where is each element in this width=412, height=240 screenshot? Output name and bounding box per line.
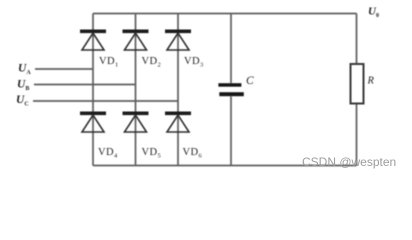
svg-text:VD1: VD1 (99, 56, 119, 69)
svg-text:UA: UA (18, 63, 31, 77)
wire: top DC bus (+) (93, 13, 357, 15)
wire: phase A input line (35, 68, 93, 70)
resistor R (351, 64, 364, 104)
diode VD1 (80, 30, 106, 51)
svg-text:VD2: VD2 (142, 56, 162, 69)
svg-text:R: R (367, 76, 375, 87)
wire: capacitor branch (230, 14, 232, 84)
svg-text:U0: U0 (368, 6, 379, 20)
svg-text:C: C (246, 75, 254, 87)
wire: column of VD3/VD6 (177, 14, 179, 166)
diode VD4 (80, 112, 106, 133)
watermark CSDN @wespten (302, 155, 396, 169)
svg-text:UB: UB (17, 79, 29, 93)
svg-text:VD5: VD5 (142, 147, 162, 160)
svg-text:VD6: VD6 (183, 147, 203, 160)
diode VD2 (123, 30, 149, 51)
capacitor C (218, 83, 243, 96)
wire: column of VD2/VD5 (135, 14, 137, 166)
wire: phase C input line (33, 100, 178, 102)
diode VD5 (123, 112, 149, 133)
wire: capacitor lower lead (230, 97, 232, 166)
diode VD3 (165, 30, 191, 51)
svg-text:VD3: VD3 (184, 56, 204, 69)
svg-text:UC: UC (16, 94, 29, 108)
wire: phase B input line (34, 84, 136, 86)
wire: resistor lower lead (356, 104, 358, 166)
diode VD6 (165, 112, 191, 133)
wire: column of VD1/VD4 (92, 14, 94, 166)
svg-text:VD4: VD4 (98, 147, 118, 160)
wire: resistor upper lead (356, 14, 358, 65)
wire: bottom DC bus (-) (93, 165, 357, 167)
